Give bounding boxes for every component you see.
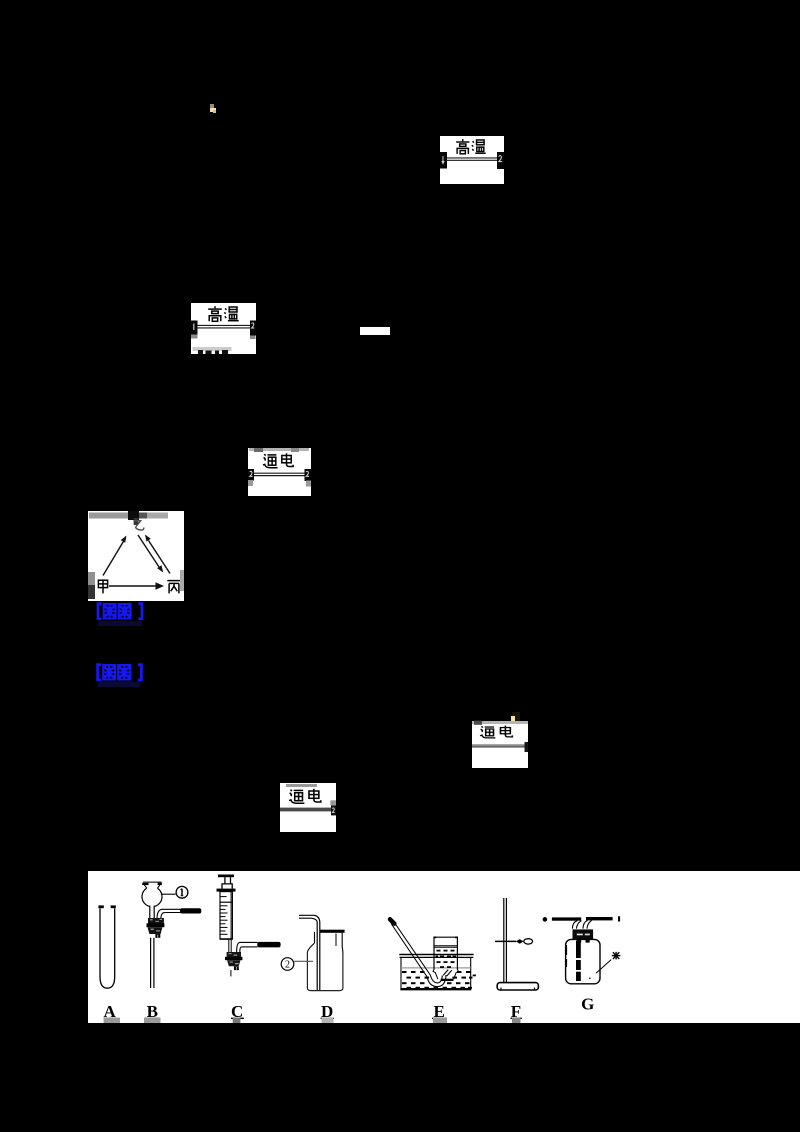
arrow jia->bing: [109, 585, 156, 587]
labels A-G: [104, 995, 595, 1022]
apparatus E: water trough with collection bottle: [390, 919, 476, 989]
blue 【答案】: [95, 602, 145, 621]
equation box 4: 通电 (small, right): [474, 720, 481, 725]
apparatus B: funnel with stopper and delivery tube: [142, 882, 201, 989]
arrow jia->yi: [103, 541, 124, 576]
blue 【解析】: [95, 663, 144, 682]
arrow yi->bing: [138, 535, 160, 569]
equation box 5: 通电: [280, 783, 336, 832]
apparatus A: test tube: [98, 905, 115, 988]
tiny yellow artifact top: [210, 104, 214, 108]
apparatus G: gas washing bottle: [543, 916, 621, 984]
arrow bing->yi: [149, 541, 171, 574]
big apparatus figure A-G: [88, 871, 800, 1023]
apparatus C: syringe: [217, 875, 281, 977]
equation box 2: 高温: [191, 303, 256, 354]
glyph symbol definitions: [0, 0, 1, 1]
triangle diagram 甲乙丙: [88, 511, 184, 601]
equation box 3: 通电 (water electrolysis): [248, 448, 311, 496]
apparatus F: iron stand: [495, 898, 538, 990]
equation box 1: 高温 (3Fe+2O2=Fe3O4): [440, 136, 504, 184]
apparatus D: gas bottle with inlet tube: [281, 915, 344, 990]
white dash (blank) right of box2: [360, 327, 390, 335]
svg-text:2: 2: [285, 960, 290, 971]
svg-text:G: G: [581, 995, 594, 1014]
